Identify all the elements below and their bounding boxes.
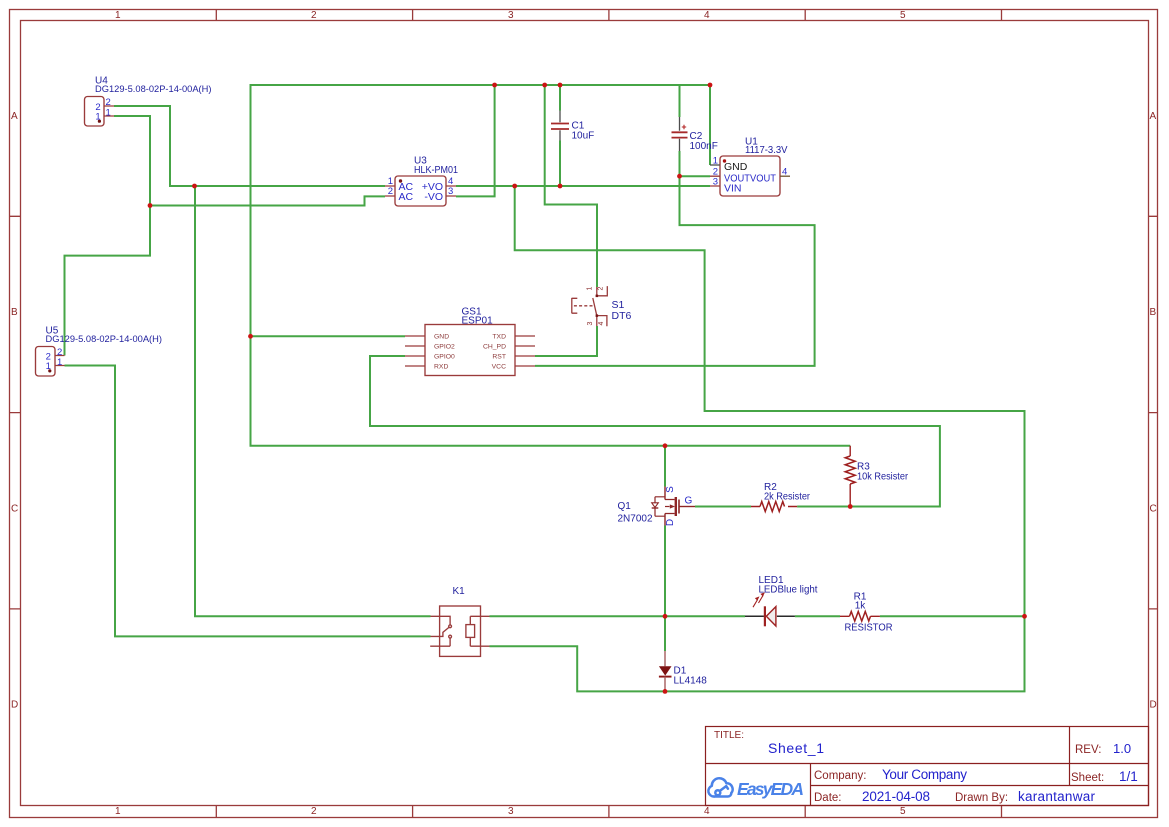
wire U5 pin1 to K1 mid-left	[65, 366, 431, 637]
junction top rail / U1 GND drop	[708, 83, 713, 88]
svg-text:3: 3	[448, 186, 453, 197]
TITLE BLOCK	[706, 727, 1149, 806]
svg-text:D: D	[11, 700, 18, 711]
svg-text:1: 1	[713, 156, 718, 167]
svg-text:TITLE:: TITLE:	[714, 730, 744, 741]
wire +VO net to LED row and bottom rail	[490, 186, 1025, 691]
junction drain node LED row	[663, 614, 668, 619]
svg-text:DT6: DT6	[612, 310, 632, 322]
wire ESP01 GPIO0 to gate network	[370, 356, 940, 507]
svg-text:K1: K1	[453, 586, 466, 597]
wire AC net to K1 pin top-left	[195, 186, 431, 616]
wire top GND rail and left drop to R3 rail	[251, 85, 851, 446]
svg-text:Drawn By:: Drawn By:	[955, 792, 1008, 804]
svg-text:1/1: 1/1	[1119, 769, 1138, 784]
svg-text:10uF: 10uF	[572, 130, 595, 141]
svg-text:Sheet_1: Sheet_1	[768, 740, 824, 756]
svg-text:5: 5	[900, 806, 906, 817]
svg-text:G: G	[685, 495, 693, 506]
svg-text:Date:: Date:	[814, 792, 842, 804]
svg-text:B: B	[1150, 307, 1157, 318]
wire C1 top	[559, 85, 561, 111]
svg-text:VIN: VIN	[724, 182, 742, 194]
svg-text:3: 3	[508, 10, 514, 21]
svg-text:VCC: VCC	[492, 364, 506, 371]
resistor R2	[751, 502, 797, 512]
junction GND rail / Q1 source	[663, 443, 668, 448]
wire U4 pin1 down to junction	[114, 116, 150, 206]
wire C2 top	[679, 85, 681, 117]
transistor Q1 2N7002	[652, 487, 695, 526]
svg-text:CH_PD: CH_PD	[483, 344, 506, 351]
svg-text:4: 4	[782, 167, 787, 178]
svg-text:1117-3.3V: 1117-3.3V	[745, 145, 788, 156]
svg-text:3: 3	[713, 177, 718, 188]
svg-text:AC: AC	[399, 191, 414, 203]
wire drain node down to D1	[664, 616, 666, 651]
svg-text:HLK-PM01: HLK-PM01	[414, 165, 458, 176]
svg-text:GPIO2: GPIO2	[434, 344, 455, 351]
svg-text:RST: RST	[492, 354, 506, 361]
LED1	[745, 592, 795, 626]
wire top rail to switch S1 pin1	[545, 85, 597, 287]
svg-text:10k Resister: 10k Resister	[857, 471, 909, 482]
svg-text:A: A	[1150, 111, 1157, 122]
svg-text:GND: GND	[724, 161, 748, 173]
junction +VO / net to LED row	[512, 184, 517, 189]
svg-text:ESP01: ESP01	[462, 316, 494, 327]
svg-text:2k Resister: 2k Resister	[764, 492, 811, 503]
junction +VO / C1	[558, 184, 563, 189]
wire GND rail to Q1 source	[664, 446, 666, 487]
wire LED to R1	[795, 615, 840, 617]
svg-text:DG129-5.08-02P-14-00A(H): DG129-5.08-02P-14-00A(H)	[95, 84, 212, 95]
svg-text:A: A	[11, 111, 18, 122]
capacitor C2 (polarized)	[672, 117, 688, 151]
svg-text:Sheet:: Sheet:	[1071, 772, 1104, 784]
wire R1 to right vertical	[880, 615, 1025, 617]
svg-text:D: D	[1150, 700, 1157, 711]
capacitor C1	[551, 111, 569, 141]
svg-text:B: B	[11, 307, 18, 318]
svg-text:2: 2	[388, 186, 393, 197]
svg-text:D: D	[665, 519, 676, 526]
svg-text:S: S	[665, 486, 676, 493]
svg-text:REV:: REV:	[1075, 744, 1101, 756]
svg-text:5: 5	[900, 10, 906, 21]
junction gate / R3	[848, 504, 853, 509]
junction AC2 net three-way	[148, 203, 153, 208]
svg-text:1: 1	[115, 806, 121, 817]
svg-text:100nF: 100nF	[690, 141, 718, 152]
svg-text:RXD: RXD	[434, 364, 448, 371]
svg-text:Company:: Company:	[814, 770, 866, 782]
wire junction to U3 pin2 (AC)	[150, 196, 385, 205]
svg-text:2: 2	[311, 10, 317, 21]
junction GND drop / ESP01 GND	[248, 334, 253, 339]
svg-text:LEDBlue light: LEDBlue light	[759, 585, 818, 596]
svg-text:4: 4	[704, 806, 710, 817]
junction top rail / -VO	[492, 83, 497, 88]
wire drain node to LED	[665, 615, 745, 617]
svg-text:karantanwar: karantanwar	[1018, 789, 1096, 804]
svg-text:LL4148: LL4148	[674, 676, 708, 687]
wire VOUT node to U1 pin2	[680, 175, 711, 177]
svg-text:1: 1	[95, 111, 100, 122]
svg-text:2N7002: 2N7002	[618, 514, 653, 525]
connector U5	[36, 347, 65, 377]
diode D1 LL4148	[659, 651, 672, 691]
wire VOUT down to ESP01 VCC	[535, 176, 815, 366]
switch S1 DT6	[572, 286, 608, 326]
resistor R3	[845, 446, 855, 507]
junction top rail / switch feed	[542, 83, 547, 88]
svg-text:4: 4	[598, 321, 605, 325]
svg-text:-VO: -VO	[424, 191, 443, 203]
svg-text:1: 1	[587, 286, 594, 290]
svg-text:1: 1	[46, 361, 51, 372]
wire U5 pin2 up to junction	[65, 206, 151, 356]
svg-text:GPIO0: GPIO0	[434, 354, 455, 361]
regulator U1 1117-3.3V	[710, 156, 790, 196]
svg-text:3: 3	[587, 321, 594, 325]
svg-text:DG129-5.08-02P-14-00A(H): DG129-5.08-02P-14-00A(H)	[46, 334, 163, 345]
svg-text:EasyEDA: EasyEDA	[737, 779, 804, 799]
wire ESP01 GND to left drop	[251, 335, 406, 337]
svg-text:Your Company: Your Company	[882, 767, 967, 782]
wire C1 bottom	[559, 141, 561, 187]
svg-text:4: 4	[704, 10, 710, 21]
svg-text:1: 1	[106, 107, 111, 118]
junction D1 / bottom rail	[663, 689, 668, 694]
svg-text:GND: GND	[434, 334, 449, 341]
wire gate R2 right segment	[797, 506, 850, 508]
resistor R1	[840, 612, 880, 622]
wire U3 pin3 -VO up to top rail	[456, 85, 495, 196]
svg-text:2: 2	[311, 806, 317, 817]
svg-text:3: 3	[508, 806, 514, 817]
wire U3 pin4 +VO to U1 VIN	[456, 185, 710, 187]
module U3 HLK-PM01	[385, 176, 456, 206]
wire C2 bottom to VOUT node	[679, 151, 681, 176]
svg-text:C: C	[1150, 504, 1157, 515]
svg-text:1: 1	[115, 10, 121, 21]
EasyEDA logo	[708, 778, 804, 799]
wire top rail to U1 GND pin	[709, 85, 711, 165]
wire U4 pin2 to U3 pin1 (AC)	[114, 106, 385, 186]
junction LED row / +VO vertical	[1022, 614, 1027, 619]
svg-text:TXD: TXD	[492, 334, 506, 341]
svg-text:C: C	[11, 504, 18, 515]
svg-text:Q1: Q1	[618, 501, 632, 512]
wire ESP01 RST to switch S1 pin3	[535, 326, 597, 356]
junction top rail / C1	[558, 83, 563, 88]
wire Q1 gate to R2	[695, 506, 751, 508]
svg-text:1: 1	[57, 357, 62, 368]
svg-text:2021-04-08: 2021-04-08	[862, 789, 930, 804]
module GS1 ESP01	[405, 325, 535, 376]
junction AC net at U3 pin1 wire	[192, 184, 197, 189]
wire K1 coil+ to drain node	[490, 615, 666, 617]
connector U4	[85, 97, 115, 127]
wire Q1 drain to LED row	[664, 526, 666, 617]
svg-text:RESISTOR: RESISTOR	[845, 622, 893, 633]
svg-text:2: 2	[597, 286, 604, 290]
relay K1	[430, 606, 489, 656]
junction VOUT / C2	[677, 174, 682, 179]
svg-text:1.0: 1.0	[1113, 741, 1131, 756]
svg-text:1k: 1k	[855, 601, 867, 612]
